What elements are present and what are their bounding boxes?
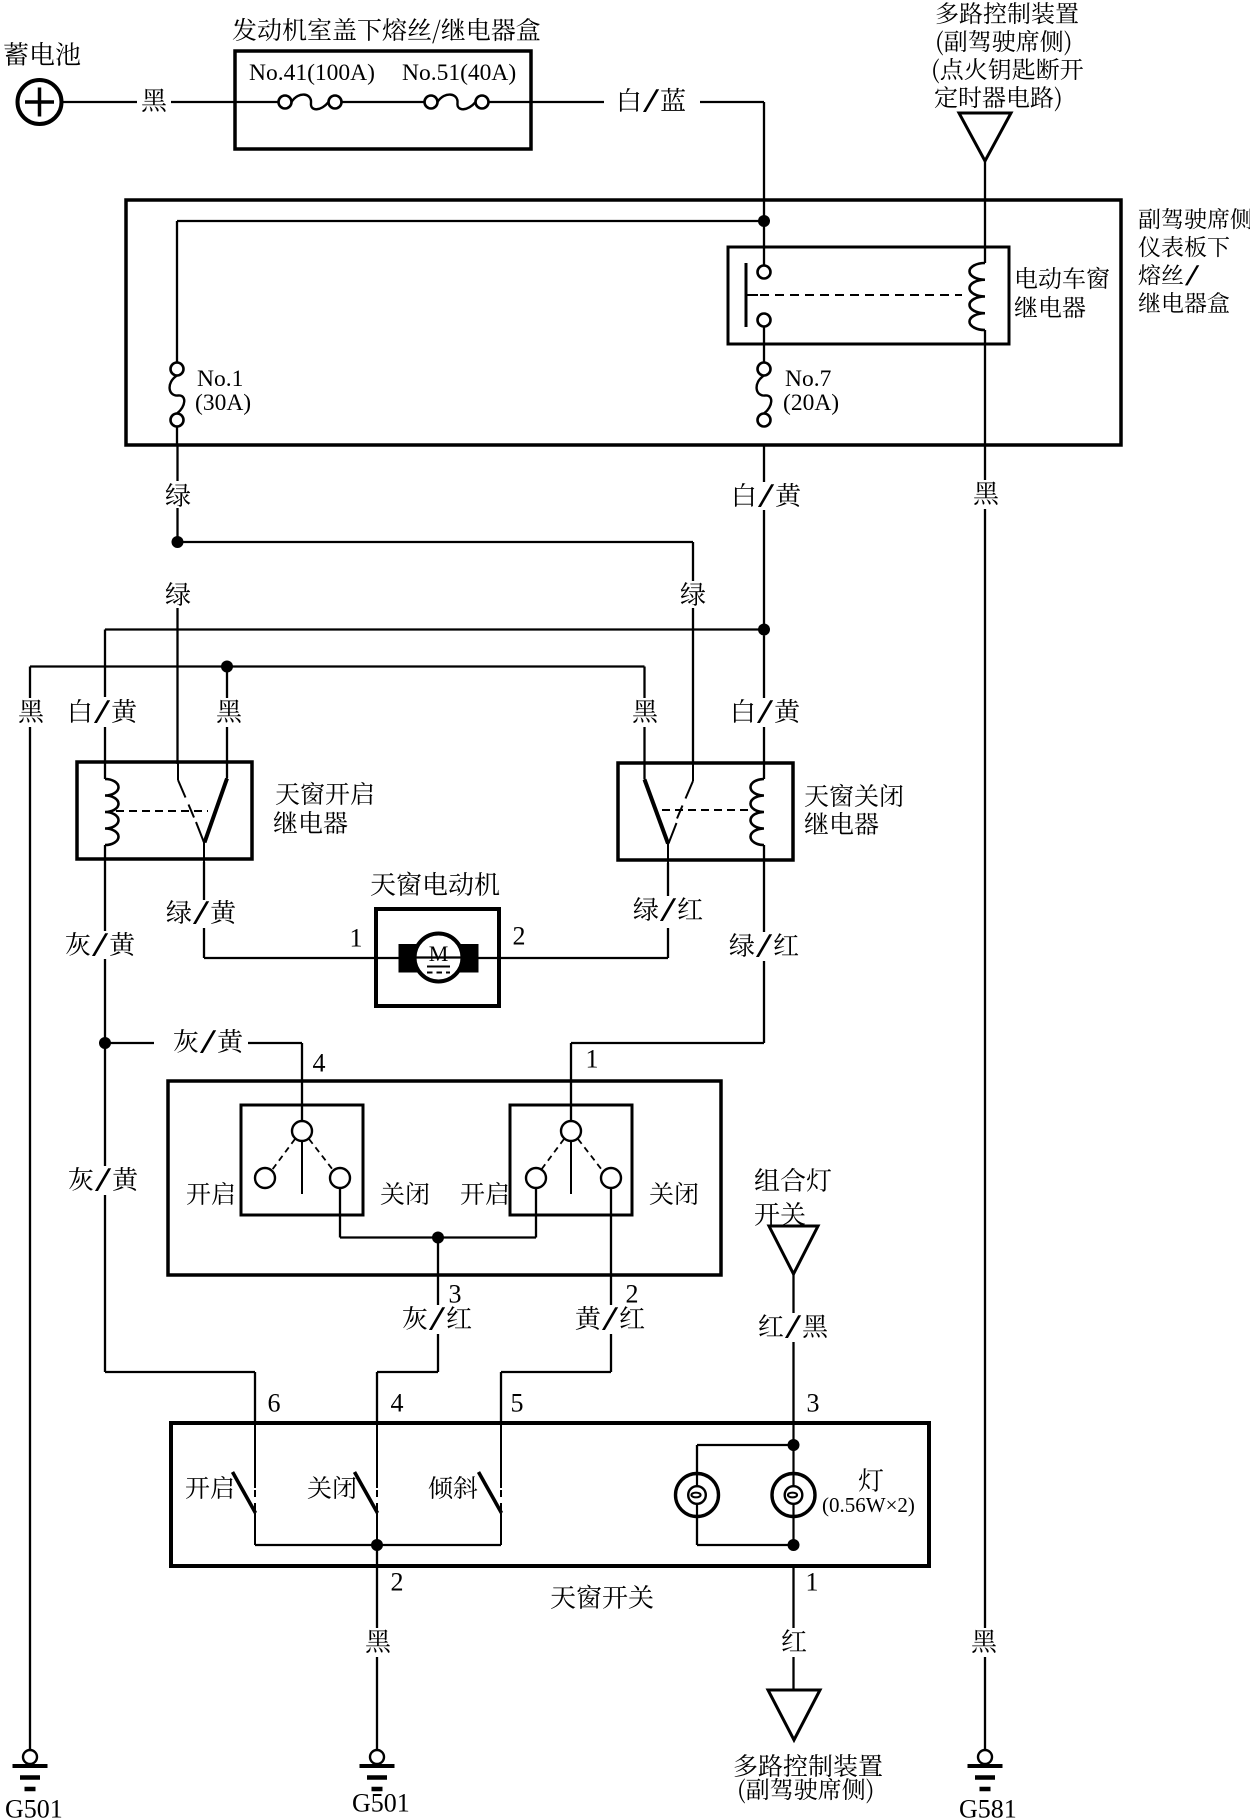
wire fuse box to 白/蓝 label [531,101,604,103]
wire 黑 from triangle down (upper part) [984,161,986,263]
wire 绿 left down to relay [176,608,178,764]
lamp L2 [772,1474,815,1517]
wire 灰/黄 to pin6 [104,1195,106,1372]
label 天窗关闭 [805,784,903,807]
open relay fixed contact [226,762,228,779]
svg-text:G501: G501 [5,1795,63,1820]
label 电动车窗 [1017,267,1109,289]
wire 黄/红 to pin5 (switch) [610,1334,612,1372]
close relay dashed link [662,809,751,811]
wire 黑 left edge down [29,667,31,699]
wire 黑 from relay coil down [984,445,986,480]
tilt switch S3 [500,1423,502,1488]
junction dot 白/黄 [758,624,770,636]
sunroof switch box (天窗开关) [171,1423,929,1566]
wire label 黑 (battery feed) [142,89,166,112]
connector triangle to multiplex control unit (top) [959,113,1011,161]
wire label 白/黄 (right) [734,699,799,723]
fuse No.51 [425,96,438,109]
wire label 黄/红 [576,1306,644,1330]
wire label 黑 (close relay) [633,700,657,723]
wire 红/黑 to pin3 [792,1342,794,1424]
wire 黑 to fuse box [171,101,235,103]
黑 ground rail [30,665,645,667]
right limit switch pivot [561,1121,581,1141]
svg-text:No.41(100A): No.41(100A) [249,60,375,86]
svg-text:4: 4 [313,1049,326,1078]
ground G501 (left) [23,1750,37,1764]
left limit dashed arms [272,1139,295,1170]
wire label 黑 (right bottom) [972,1630,996,1653]
wire 绿/黄 from open relay [203,862,205,900]
wire 红 to triangle [792,1657,794,1690]
svg-text:1: 1 [586,1045,599,1074]
svg-text:2: 2 [513,922,526,951]
svg-text:No.51(40A): No.51(40A) [402,60,516,86]
wire 黑 right to ground [984,1657,986,1750]
wire 灰/红 to pin4 (switch) [437,1334,439,1372]
wire 白/黄 to junction [763,510,765,630]
sunroof motor box (天窗电动机) [376,909,499,1006]
svg-text:(0.56W×2): (0.56W×2) [822,1493,915,1517]
label 继电器盒 [1139,292,1229,313]
svg-text:1: 1 [806,1568,819,1597]
label 多路控制装置 (bottom) [735,1754,882,1777]
junction dot switch common [371,1539,383,1551]
junction dot 绿 [172,536,184,548]
wire 白/黄 into close relay coil [763,636,765,699]
wire pin2 down [376,1545,378,1628]
wire fuse No.1 down [176,427,178,446]
wire label 绿/红 (to motor) [634,897,703,921]
label 天窗开关 [551,1585,653,1609]
wire 绿 right down to relay [692,608,694,764]
right limit dashed arms [541,1139,564,1170]
junction dot lamp top [788,1439,800,1451]
label 关闭 (limit right) [650,1182,698,1205]
wire label 灰/黄 (1) [66,932,134,956]
junction dot 黑 rail [221,661,233,673]
power window relay box (电动车窗继电器) [728,247,1009,344]
fuse No.1 (30A) [171,363,184,376]
svg-text:No.1: No.1 [197,366,243,392]
relay contact bottom terminal [758,314,771,327]
right limit contact L [526,1168,546,1188]
wire battery to fuse box [62,101,138,103]
sunroof open relay box (天窗开启继电器) [77,762,252,859]
wire label 黑 (open relay) [217,700,241,723]
wire 绿/红 to pin1 jog [763,961,765,1043]
close limit switch box [510,1105,632,1215]
left limit contact L [255,1168,275,1188]
wire 灰/黄 from open relay coil [104,862,106,931]
close relay fixed contact [644,763,646,780]
svg-text:G501: G501 [352,1789,410,1818]
svg-text:2: 2 [391,1568,404,1597]
wire label 绿 (right) [681,582,706,606]
open limit switch box [241,1105,363,1215]
relay coil (on 黑 wire) [970,263,986,330]
wire label 灰/黄 (2) [69,1167,137,1191]
label 继电器 (power window relay) [1015,296,1086,318]
connector triangle from combination light switch [769,1226,818,1274]
connector triangle to multiplex control unit (bottom) [768,1690,820,1740]
label 定时器电路) [935,86,1061,111]
wire 绿/红 up to relay [667,863,669,896]
open relay dashed link [116,810,208,812]
wire label 灰/红 [403,1306,471,1330]
motor left terminal block [399,945,418,973]
open switch S1 [254,1423,256,1488]
motor wire through [376,957,499,959]
wire 红/黑 down [792,1274,794,1313]
right limit contact R [601,1168,621,1188]
wire label 白/黄 (upper right) [735,483,800,507]
label 开启 (switch) [186,1476,233,1499]
sunroof close relay box (天窗关闭继电器) [618,763,793,860]
right limit wire R contact down (pin2) [610,1188,612,1305]
wire 白/黄 into open relay coil [104,727,106,779]
lamp L1 [676,1474,719,1517]
svg-text:4: 4 [391,1389,404,1418]
junction dot (白/蓝 feed) [758,215,770,227]
close switch S2 [376,1423,378,1488]
bus wire inside box [177,220,764,222]
label (副驾驶席侧) [937,30,1070,55]
wire label 红 [782,1629,806,1651]
wire label 灰/黄 (branch) [174,1029,242,1053]
svg-text:M: M [429,941,449,966]
switch common bus [255,1544,501,1546]
fuse No.7 (20A) [758,363,771,376]
label 天窗电动机 [371,872,499,896]
open relay coil [105,779,119,845]
svg-text:1: 1 [350,924,363,953]
left limit switch pivot [292,1121,312,1141]
白/黄 branch rail [105,628,764,630]
relay dashed link [760,294,962,296]
label (副驾驶席侧) (bottom) [739,1778,872,1803]
ground G581 (right) [978,1750,992,1764]
label 继电器 (open relay) [274,811,348,834]
junction dot pin3 [432,1232,444,1244]
wire 绿/黄 to motor pin1 [203,928,205,958]
label 多路控制装置 (top right) [937,2,1079,24]
svg-text:No.7: No.7 [785,366,832,392]
label 关闭 (limit left) [381,1182,429,1205]
wire motor pin2 to close relay [499,957,668,959]
svg-text:3: 3 [807,1389,820,1418]
label 发动机室盖下熔丝/继电器盒 [233,18,540,44]
label 继电器 (close relay) [805,812,879,835]
svg-text:6: 6 [268,1389,281,1418]
label (点火钥匙断开 [933,58,1083,83]
label 灯 [859,1468,883,1492]
limit switch unit box [168,1081,721,1275]
label 天窗开启 [276,782,373,805]
engine-room fuse/relay box (发动机室盖下熔丝/继电器盒) [235,51,531,149]
label 开启 (limit left) [187,1182,234,1205]
svg-text:5: 5 [511,1389,524,1418]
label 熔丝/ [1139,264,1200,285]
label 倾斜 (switch) [429,1476,478,1499]
svg-text:(30A): (30A) [195,390,251,416]
wire 绿/红 from close relay coil [763,863,765,932]
fuse No.41 [235,101,279,103]
wire 灰/黄 branch cont. [248,1042,302,1044]
wire label 黑 (left edge) [19,700,43,723]
wire 黑 left edge to ground [29,727,31,1750]
battery BT1 (蓄电池) [18,80,62,124]
wire 绿 below box [176,445,178,481]
label 组合灯 [755,1168,831,1192]
label 仪表板下 [1139,236,1229,257]
left limit wire R contact down [339,1188,341,1238]
wire 灰/黄 to junction [104,959,106,1043]
right limit wire L contact down [535,1188,537,1238]
close relay movable arm [692,763,694,781]
svg-text:G581: G581 [959,1795,1017,1820]
wire 灰/黄 down left side [104,1043,106,1166]
junction dot lamp bottom [788,1539,800,1551]
motor M1 symbol [415,934,463,982]
lamp branch wires [792,1424,794,1545]
motor right terminal block [459,945,478,973]
wire label 黑 (pin2) [366,1630,390,1653]
wire label 白/黄 (left) [71,699,136,723]
wire 黑 to ground G501 [376,1657,378,1750]
label 副驾驶席侧 [1139,208,1250,229]
relay contact top terminal [763,221,765,266]
under-dash fuse/relay box (副驾驶席侧仪表板下熔丝/继电器盒) [126,200,1121,445]
wire 白/蓝 down to junction [700,101,764,103]
left limit contact R [330,1168,350,1188]
label 开关 (combination light) [755,1202,805,1226]
wire label 绿/黄 [167,900,235,924]
wire 绿 to junction [176,508,178,542]
wire 黑 into open relay contact [226,667,228,699]
wire label 绿 (1) [166,483,191,507]
wire label 红/黑 [759,1314,827,1338]
label 蓄电池 [4,42,80,66]
close relay coil [751,779,765,845]
svg-text:2: 2 [626,1280,639,1309]
open relay movable arm [177,762,179,780]
wire label 黑 (far right upper) [974,482,998,505]
wire pin1 down [792,1566,794,1628]
绿 branch rail [178,541,694,543]
wire label 绿/红 (right) [730,933,799,957]
wire label 白/蓝 [620,88,685,112]
wire 白/黄 vertical below fuse No.7 [763,445,765,482]
svg-text:3: 3 [449,1280,462,1309]
wire pin3 down [437,1238,439,1306]
label 关闭 (switch) [308,1476,356,1499]
wire 灰/黄 branch to pin4 [105,1042,154,1044]
junction dot 灰/黄 [99,1037,111,1049]
ground G501 (middle) [370,1750,384,1764]
wire label 绿 (left 2) [166,582,191,606]
wire 黑 into close relay contact [643,667,645,699]
label 开启 (limit right) [461,1182,508,1205]
svg-text:(20A): (20A) [783,390,839,416]
relay contact bar [745,263,748,327]
